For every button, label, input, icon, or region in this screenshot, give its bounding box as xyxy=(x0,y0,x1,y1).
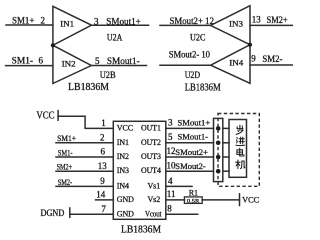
wire SM1- to pin 6 xyxy=(56,156,113,158)
svg-text:LB1836M: LB1836M xyxy=(185,83,221,94)
svg-text:SMout1-: SMout1- xyxy=(107,56,140,66)
wire OUT3 pin 12 to connector xyxy=(166,156,214,158)
svg-text:SM2+: SM2+ xyxy=(267,15,288,25)
wire Vs1 pin 4 stub xyxy=(166,185,192,187)
wire SM2- to pin 9 xyxy=(56,185,113,187)
svg-text:SMout1+: SMout1+ xyxy=(178,117,211,127)
wire SMout2- input to U2D pin 10 xyxy=(160,64,211,66)
svg-text:OUT4: OUT4 xyxy=(141,166,161,175)
junction node left buffers xyxy=(51,43,55,47)
svg-text:SM2+: SM2+ xyxy=(57,162,73,172)
op-amp U2C xyxy=(211,6,251,45)
svg-text:OUT2: OUT2 xyxy=(141,138,161,147)
svg-text:IN1: IN1 xyxy=(117,138,129,147)
wire SM1- input to U2B xyxy=(6,65,53,67)
svg-text:GND: GND xyxy=(117,195,134,204)
resistor R1 body xyxy=(184,197,202,204)
wire OUT1 pin 3 to connector xyxy=(166,127,214,129)
stepper motor box xyxy=(229,120,247,178)
stepper motor chinese label 步进电机 xyxy=(236,125,245,168)
char 电 xyxy=(237,148,244,156)
op-amp U1 LB1836M IC body xyxy=(113,121,166,219)
wire connector to motor row 1 xyxy=(223,127,229,129)
dashed motor enclosure xyxy=(218,114,259,187)
svg-text:SMout2- 10: SMout2- 10 xyxy=(169,49,211,59)
wire connector to motor row 3 xyxy=(223,156,229,158)
svg-text:VCC: VCC xyxy=(242,194,259,204)
svg-text:DGND: DGND xyxy=(41,208,65,218)
wire SMout1+ output of U2A pin 3 xyxy=(92,24,149,26)
wire SM2+ to pin 13 xyxy=(56,170,113,172)
wire SMout2+ input to U2C pin 12 xyxy=(160,24,211,26)
svg-text:IN4: IN4 xyxy=(229,57,244,67)
svg-text:IN3: IN3 xyxy=(117,166,129,175)
svg-text:3: 3 xyxy=(168,118,173,128)
wire SM1+ to pin 2 xyxy=(56,142,113,144)
svg-text:SM1-: SM1- xyxy=(58,147,73,157)
svg-text:VCC: VCC xyxy=(36,110,54,121)
wire VCC feed to pin 1 xyxy=(58,116,113,128)
connector dot 2 xyxy=(216,141,221,146)
wire Vs2 pin 11 to resistor R1 xyxy=(166,199,185,201)
svg-text:SMout1+: SMout1+ xyxy=(106,16,141,26)
svg-text:0.5R: 0.5R xyxy=(187,199,200,205)
svg-text:VCC: VCC xyxy=(117,124,133,133)
svg-text:IN3: IN3 xyxy=(229,18,243,28)
svg-text:Vcout: Vcout xyxy=(145,209,162,218)
svg-text:13: 13 xyxy=(252,14,261,24)
svg-text:Vs2: Vs2 xyxy=(148,195,161,204)
svg-text:SMout2+ 12: SMout2+ 12 xyxy=(170,16,215,26)
svg-text:8: 8 xyxy=(167,204,172,214)
svg-text:6: 6 xyxy=(39,55,44,65)
svg-text:SMout2-: SMout2- xyxy=(175,161,206,171)
svg-text:R1: R1 xyxy=(189,189,198,198)
svg-text:2: 2 xyxy=(100,133,105,143)
svg-text:3: 3 xyxy=(94,16,99,26)
wire connector to motor row 4 xyxy=(223,170,229,172)
svg-text:14: 14 xyxy=(96,190,106,200)
wire OUT2 pin 5 to connector xyxy=(166,142,214,144)
op-amp U2B xyxy=(53,45,91,83)
connector dot 3 xyxy=(216,155,221,160)
svg-text:9: 9 xyxy=(100,176,105,186)
svg-text:LB1836M: LB1836M xyxy=(121,225,162,236)
connector dot 4 xyxy=(216,169,221,174)
char 机 xyxy=(236,160,245,169)
wire connector to motor row 2 xyxy=(223,142,229,144)
DGND terminal tick xyxy=(69,208,71,217)
svg-text:LB1836M: LB1836M xyxy=(68,82,109,93)
wire R1 to VCC xyxy=(202,199,239,201)
svg-text:IN2: IN2 xyxy=(117,152,129,161)
junction node right buffers xyxy=(248,43,252,47)
char 步 xyxy=(236,125,243,134)
wire OUT4 pin 10 to connector xyxy=(166,170,214,172)
svg-text:IN4: IN4 xyxy=(117,181,129,190)
op-amp U2D xyxy=(211,45,250,84)
svg-text:9: 9 xyxy=(251,53,256,63)
wire DGND to pin 7 xyxy=(70,213,114,215)
svg-text:Vs1: Vs1 xyxy=(148,181,161,190)
wire pin 14 GND stub xyxy=(96,199,114,201)
svg-text:6: 6 xyxy=(101,147,106,157)
svg-text:4: 4 xyxy=(168,176,173,186)
VCC terminal tick xyxy=(57,111,59,121)
svg-text:U2A: U2A xyxy=(107,32,123,42)
svg-text:U2C: U2C xyxy=(190,32,205,42)
op-amp U2A xyxy=(53,6,92,45)
wire SM2- output of U2D pin 9 xyxy=(250,64,292,66)
svg-text:U2B: U2B xyxy=(100,70,116,80)
svg-text:5: 5 xyxy=(95,56,100,66)
svg-text:IN2: IN2 xyxy=(62,58,76,68)
svg-text:SM1+: SM1+ xyxy=(57,133,76,143)
svg-text:SMout2+: SMout2+ xyxy=(175,147,208,157)
wire SM1+ input to U2A xyxy=(6,24,53,26)
svg-text:1: 1 xyxy=(101,118,106,128)
svg-text:OUT1: OUT1 xyxy=(141,124,161,133)
svg-text:SM1+: SM1+ xyxy=(12,15,34,25)
svg-text:GND: GND xyxy=(117,209,134,218)
svg-text:7: 7 xyxy=(101,204,106,214)
svg-text:SM2-: SM2- xyxy=(262,54,282,64)
wire SMout1- output of U2B pin 5 xyxy=(91,65,146,67)
svg-text:2: 2 xyxy=(41,15,46,25)
svg-text:13: 13 xyxy=(98,161,108,171)
svg-text:SMout1-: SMout1- xyxy=(178,132,209,142)
svg-text:IN1: IN1 xyxy=(60,18,74,28)
VCC terminal tick right xyxy=(239,194,241,206)
connector dot 1 xyxy=(216,126,221,131)
svg-text:11: 11 xyxy=(167,189,176,199)
char 进 xyxy=(236,137,245,145)
connector strip xyxy=(214,118,223,181)
wire SM2+ output of U2C pin 13 xyxy=(250,24,292,26)
svg-text:12: 12 xyxy=(167,146,176,156)
svg-text:SM2-: SM2- xyxy=(58,177,72,187)
wire Vcout pin 8 stub xyxy=(166,213,198,215)
svg-text:U2D: U2D xyxy=(185,70,201,80)
svg-text:5: 5 xyxy=(168,132,173,142)
svg-text:OUT3: OUT3 xyxy=(141,152,161,161)
svg-text:SM1-: SM1- xyxy=(12,55,33,65)
